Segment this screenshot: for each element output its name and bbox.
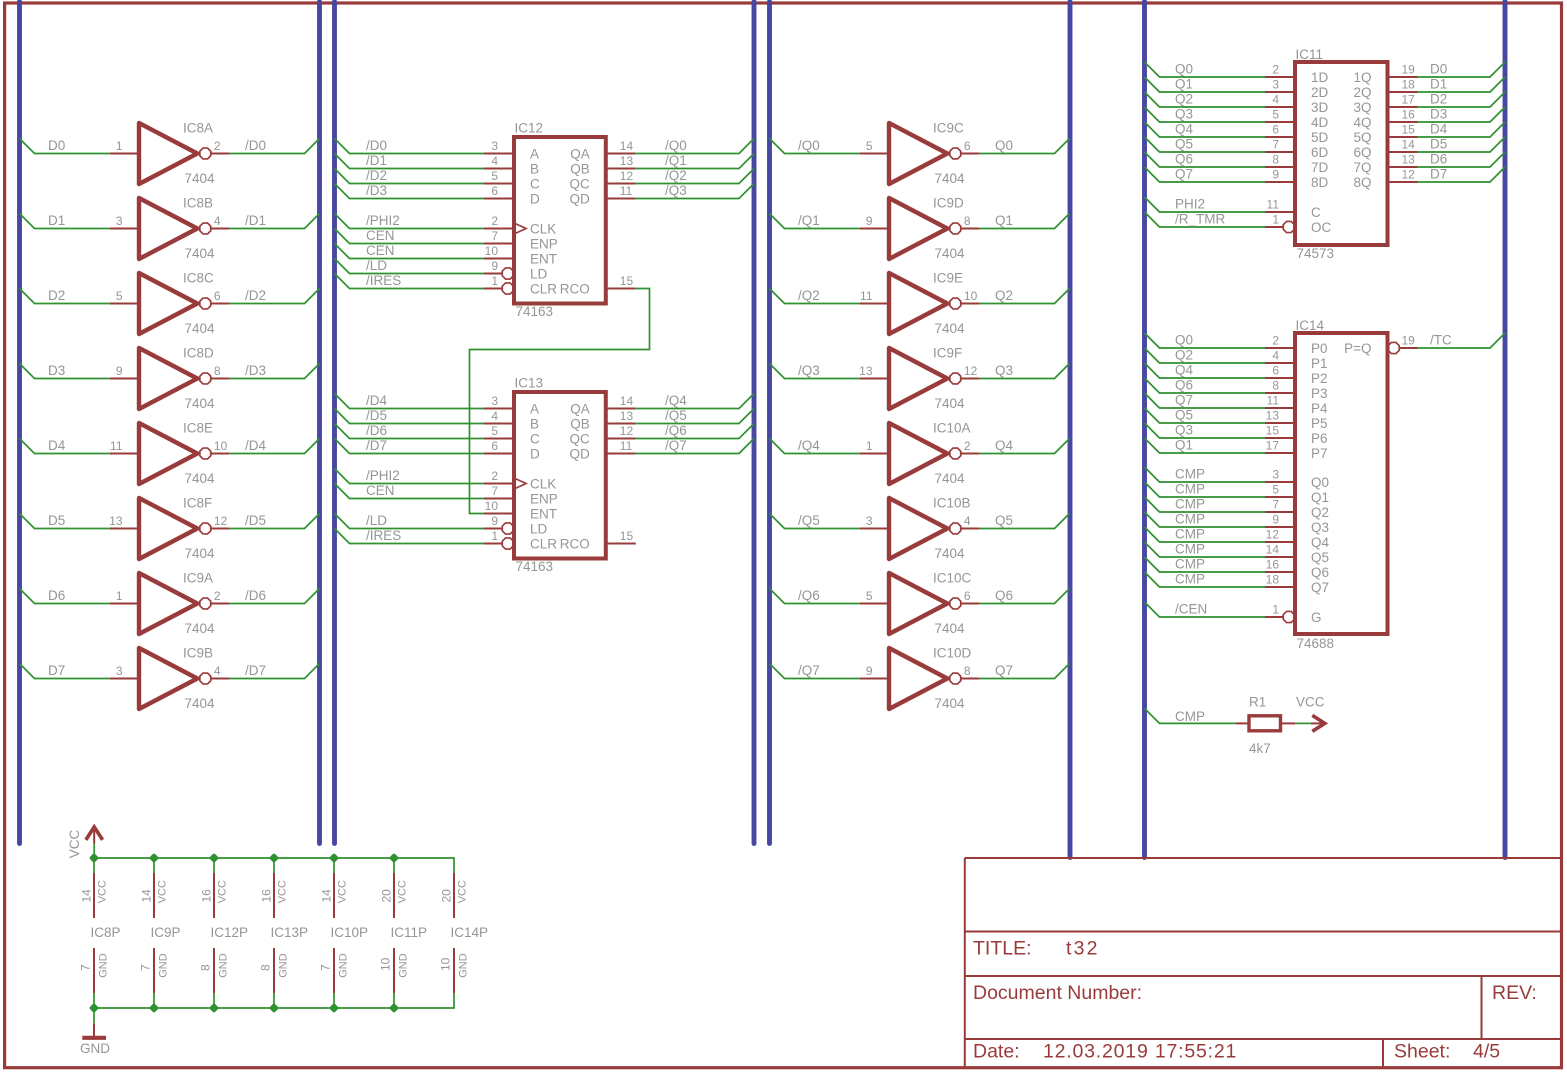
svg-text:Q3: Q3 — [1175, 423, 1193, 438]
junction — [329, 853, 339, 863]
svg-text:/D3: /D3 — [366, 183, 387, 198]
svg-text:13: 13 — [620, 409, 634, 423]
svg-text:5: 5 — [1272, 108, 1279, 122]
svg-text:3D: 3D — [1311, 100, 1329, 115]
pin 5 C — [484, 424, 540, 447]
svg-text:CMP: CMP — [1175, 512, 1205, 527]
svg-text:VCC: VCC — [277, 880, 289, 903]
svg-text:4: 4 — [1272, 349, 1279, 363]
bus /D left-a — [317, 2, 322, 844]
svg-text:/Q7: /Q7 — [798, 663, 820, 678]
IC IC12 74163 — [514, 137, 606, 304]
svg-text:2: 2 — [1272, 63, 1279, 77]
bus Q right-b — [1142, 2, 1147, 858]
pin 2 CLK — [484, 214, 556, 237]
svg-text:C: C — [530, 432, 540, 447]
wire GND stem — [93, 1008, 95, 1023]
bus DBUS left — [17, 2, 22, 844]
pin 19 1Q — [1353, 63, 1417, 86]
svg-text:9: 9 — [866, 664, 873, 678]
svg-text:VCC: VCC — [97, 880, 109, 903]
svg-text:5D: 5D — [1311, 130, 1329, 145]
inverter IC10D 7404 — [860, 646, 979, 712]
svg-text:13: 13 — [1402, 153, 1416, 167]
svg-text:QC: QC — [570, 432, 591, 447]
wire /LD — [335, 514, 485, 529]
svg-text:D1: D1 — [1430, 77, 1447, 92]
wire VCC rail — [94, 858, 454, 873]
svg-text:11: 11 — [620, 439, 633, 453]
pin 3 Q0 — [1265, 468, 1329, 491]
wire Q4 — [1145, 122, 1266, 137]
svg-text:GND: GND — [80, 1041, 110, 1056]
svg-text:12: 12 — [1402, 168, 1416, 182]
svg-text:ENP: ENP — [530, 237, 558, 252]
svg-text:IC10C: IC10C — [933, 571, 972, 586]
svg-text:7404: 7404 — [935, 171, 966, 186]
wire Q0 — [1145, 62, 1266, 77]
pin 4 3D — [1265, 93, 1329, 116]
svg-text:Q4: Q4 — [1175, 122, 1194, 137]
pin 11 P4 — [1265, 394, 1328, 417]
svg-text:9: 9 — [491, 259, 498, 273]
svg-text:8Q: 8Q — [1353, 175, 1371, 190]
pin 7 ENP — [484, 229, 558, 252]
svg-text:2D: 2D — [1311, 85, 1329, 100]
bus /Q mid-a — [752, 2, 757, 844]
pin 9 LD — [484, 514, 548, 537]
wire Q4 — [1145, 363, 1266, 378]
svg-text:B: B — [530, 162, 539, 177]
wire CMP — [1145, 467, 1266, 482]
svg-text:ENP: ENP — [530, 492, 558, 507]
svg-text:/Q6: /Q6 — [665, 423, 687, 438]
svg-text:Q6: Q6 — [1311, 565, 1329, 580]
inverter IC8B 7404 — [110, 196, 229, 262]
inverter IC10B 7404 — [860, 496, 979, 562]
wire Q2 — [1145, 348, 1266, 363]
svg-text:1Q: 1Q — [1353, 70, 1371, 85]
svg-text:8: 8 — [214, 364, 221, 378]
svg-text:3: 3 — [116, 664, 123, 678]
svg-text:P7: P7 — [1311, 446, 1328, 461]
wire /D1 — [335, 154, 485, 169]
pin 6 D — [484, 184, 540, 207]
pin 11 QD — [570, 184, 636, 207]
svg-text:1: 1 — [491, 274, 498, 288]
svg-text:IC10B: IC10B — [933, 496, 971, 511]
svg-text:8: 8 — [964, 664, 971, 678]
svg-text:/D6: /D6 — [245, 588, 266, 603]
junction — [149, 1003, 159, 1013]
svg-text:ENT: ENT — [530, 252, 557, 267]
bus D right — [1503, 2, 1508, 858]
wire Q7 — [1145, 167, 1266, 182]
svg-text:16: 16 — [199, 889, 213, 903]
svg-text:Q1: Q1 — [1175, 438, 1193, 453]
svg-text:/D2: /D2 — [366, 168, 387, 183]
pin 4 P1 — [1265, 349, 1328, 372]
svg-text:D2: D2 — [1430, 92, 1447, 107]
svg-text:Q0: Q0 — [1175, 333, 1193, 348]
wire RCO loop IC12->IC13 ENT — [470, 289, 650, 514]
junction — [389, 1003, 399, 1013]
wire /D3 (IC8D output) — [229, 364, 320, 379]
pin 4 B — [484, 154, 539, 177]
wire /Q7 — [636, 439, 754, 454]
svg-text:14: 14 — [1266, 543, 1280, 557]
bus Q right-a — [1068, 2, 1073, 858]
svg-text:/TC: /TC — [1430, 333, 1452, 348]
pin 5 Q1 — [1265, 483, 1329, 506]
wire Q3 — [1145, 423, 1266, 438]
svg-text:16: 16 — [259, 889, 273, 903]
wire /Q3 (net to IC9F input) — [770, 364, 860, 379]
svg-text:P0: P0 — [1311, 341, 1328, 356]
pin 15 RCO — [560, 529, 636, 552]
svg-text:12: 12 — [964, 364, 978, 378]
svg-text:VCC: VCC — [67, 830, 82, 859]
svg-text:15: 15 — [620, 529, 634, 543]
pin 2 1D — [1265, 63, 1329, 86]
svg-text:5: 5 — [491, 424, 498, 438]
svg-text:P1: P1 — [1311, 356, 1328, 371]
svg-text:16: 16 — [1266, 558, 1280, 572]
svg-text:/IRES: /IRES — [366, 528, 401, 543]
svg-text:/Q1: /Q1 — [798, 213, 820, 228]
svg-text:P6: P6 — [1311, 431, 1328, 446]
wire Q5 (IC10B output) — [979, 514, 1070, 529]
pin 8 7D — [1265, 153, 1329, 176]
svg-text:7: 7 — [319, 964, 333, 971]
svg-text:/D5: /D5 — [245, 513, 266, 528]
svg-text:CMP: CMP — [1175, 709, 1205, 724]
svg-text:3: 3 — [116, 214, 123, 228]
svg-text:CEN: CEN — [366, 228, 395, 243]
wire /D1 (IC8B output) — [229, 214, 320, 229]
svg-text:Q3: Q3 — [1175, 107, 1193, 122]
svg-text:74163: 74163 — [516, 559, 554, 574]
svg-text:GND: GND — [217, 953, 229, 978]
svg-text:20: 20 — [379, 889, 393, 903]
svg-text:P=Q: P=Q — [1344, 341, 1371, 356]
svg-text:6: 6 — [491, 439, 498, 453]
svg-text:6: 6 — [1272, 123, 1279, 137]
svg-text:7404: 7404 — [935, 546, 966, 561]
svg-text:CLK: CLK — [530, 477, 556, 492]
svg-text:/D0: /D0 — [366, 138, 387, 153]
svg-text:5: 5 — [866, 589, 873, 603]
svg-text:A: A — [530, 147, 539, 162]
svg-text:7404: 7404 — [185, 621, 216, 636]
pin 7 6D — [1265, 138, 1329, 161]
svg-text:D5: D5 — [1430, 137, 1447, 152]
pin 3 A — [484, 139, 539, 162]
pin 13 7Q — [1353, 153, 1417, 176]
wire D4 — [1418, 122, 1506, 137]
svg-text:/R_TMR: /R_TMR — [1175, 212, 1226, 227]
svg-text:/Q0: /Q0 — [665, 138, 687, 153]
svg-text:17: 17 — [1402, 93, 1416, 107]
svg-text:IC10A: IC10A — [933, 421, 971, 436]
svg-text:/Q3: /Q3 — [665, 183, 687, 198]
svg-text:11: 11 — [1267, 198, 1280, 212]
svg-text:Q4: Q4 — [995, 438, 1014, 453]
wire /D2 (IC8C output) — [229, 289, 320, 304]
svg-text:2: 2 — [214, 139, 221, 153]
inverter IC9F 7404 — [859, 346, 979, 412]
wire Q4 (IC10A output) — [979, 439, 1070, 454]
wire D1 (net to IC8B input) — [20, 214, 110, 229]
pin 1 G — [1265, 603, 1322, 626]
svg-text:RCO: RCO — [560, 282, 590, 297]
svg-text:D2: D2 — [48, 288, 65, 303]
svg-text:15: 15 — [1266, 424, 1280, 438]
inverter IC9D 7404 — [860, 196, 979, 262]
svg-text:IC9D: IC9D — [933, 196, 964, 211]
svg-text:14: 14 — [1402, 138, 1416, 152]
svg-text:/D4: /D4 — [366, 393, 388, 408]
svg-text:1: 1 — [1272, 603, 1279, 617]
svg-text:2: 2 — [491, 214, 498, 228]
wire D2 (net to IC8C input) — [20, 289, 110, 304]
svg-text:7404: 7404 — [185, 171, 216, 186]
svg-text:VCC: VCC — [1296, 695, 1325, 710]
svg-text:12: 12 — [620, 424, 634, 438]
svg-text:CMP: CMP — [1175, 467, 1205, 482]
pin 2 CLK — [484, 469, 556, 492]
svg-text:CMP: CMP — [1175, 482, 1205, 497]
wire /TC — [1418, 333, 1506, 348]
wire D0 (net to IC8A input) — [20, 139, 110, 154]
wire /Q6 (net to IC10C input) — [770, 589, 860, 604]
svg-text:1: 1 — [866, 439, 873, 453]
pin 6 P2 — [1265, 364, 1328, 387]
svg-text:20: 20 — [439, 889, 453, 903]
pin 19 P=Q — [1344, 334, 1417, 357]
svg-text:8: 8 — [964, 214, 971, 228]
svg-text:/D4: /D4 — [245, 438, 267, 453]
power part IC12P — [199, 858, 249, 1008]
svg-text:/PHI2: /PHI2 — [366, 468, 400, 483]
svg-text:GND: GND — [277, 953, 289, 978]
svg-text:Sheet:: Sheet: — [1394, 1041, 1450, 1063]
wire /PHI2 — [335, 214, 485, 229]
svg-text:7: 7 — [491, 484, 498, 498]
svg-text:QB: QB — [570, 417, 590, 432]
wire /Q7 (net to IC10D input) — [770, 664, 860, 679]
svg-text:16: 16 — [1402, 108, 1416, 122]
svg-text:13: 13 — [859, 364, 873, 378]
svg-text:IC14P: IC14P — [451, 925, 489, 940]
svg-text:QD: QD — [570, 447, 591, 462]
wire /LD — [335, 259, 485, 274]
wire /Q0 (net to IC9C input) — [770, 139, 860, 154]
svg-text:IC9E: IC9E — [933, 271, 963, 286]
pin 13 QB — [570, 409, 636, 432]
pin 14 QA — [570, 139, 636, 162]
svg-text:8: 8 — [1272, 153, 1279, 167]
svg-text:2: 2 — [964, 439, 971, 453]
svg-text:IC10D: IC10D — [933, 646, 972, 661]
IC IC13 74163 — [514, 392, 606, 559]
svg-text:11: 11 — [620, 184, 633, 198]
wire CMP — [1145, 497, 1266, 512]
svg-text:7: 7 — [1272, 498, 1279, 512]
wire D2 — [1418, 92, 1506, 107]
wire /D7 (IC9B output) — [229, 664, 320, 679]
wire Q5 — [1145, 408, 1266, 423]
svg-text:/Q2: /Q2 — [665, 168, 687, 183]
wire /Q1 — [636, 154, 754, 169]
junction — [149, 853, 159, 863]
svg-text:8: 8 — [199, 964, 213, 971]
svg-text:RCO: RCO — [560, 537, 590, 552]
wire /D3 — [335, 184, 485, 199]
svg-text:/D5: /D5 — [366, 408, 387, 423]
svg-text:Q7: Q7 — [1175, 393, 1193, 408]
wire /IRES — [335, 529, 485, 544]
svg-text:14: 14 — [319, 889, 333, 903]
wire Q7 — [1145, 393, 1266, 408]
svg-text:D: D — [530, 192, 540, 207]
wire Q6 (IC10C output) — [979, 589, 1070, 604]
wire D7 (net to IC9B input) — [20, 664, 110, 679]
bus /Q mid-b — [767, 2, 772, 844]
wire /PHI2 — [335, 469, 485, 484]
svg-text:3: 3 — [491, 139, 498, 153]
wire D1 — [1418, 77, 1506, 92]
GND symbol — [80, 1023, 110, 1056]
svg-text:Q3: Q3 — [995, 363, 1013, 378]
wire Q2 — [1145, 92, 1266, 107]
inverter IC9E 7404 — [860, 271, 979, 337]
wire GND rail — [94, 993, 454, 1008]
wire D0 — [1418, 62, 1506, 77]
svg-text:LD: LD — [530, 267, 548, 282]
pin 6 5D — [1265, 123, 1329, 146]
svg-text:QD: QD — [570, 192, 591, 207]
bus /D left-b — [332, 2, 337, 844]
svg-text:/CEN: /CEN — [1175, 602, 1207, 617]
svg-text:Q2: Q2 — [1175, 348, 1193, 363]
svg-text:8D: 8D — [1311, 175, 1329, 190]
IC IC14 74688 — [1295, 333, 1388, 634]
wire /Q4 (net to IC10A input) — [770, 439, 860, 454]
wire D6 (net to IC9A input) — [20, 589, 110, 604]
svg-text:7Q: 7Q — [1353, 160, 1371, 175]
svg-text:CMP: CMP — [1175, 542, 1205, 557]
wire VCC stem — [93, 844, 95, 859]
pin 18 2Q — [1353, 78, 1417, 101]
pin 16 Q6 — [1265, 558, 1329, 581]
svg-text:IC10P: IC10P — [331, 925, 369, 940]
pin 3 2D — [1265, 78, 1329, 101]
pin 12 QC — [570, 169, 636, 192]
svg-text:74573: 74573 — [1297, 246, 1335, 261]
svg-text:TITLE:: TITLE: — [973, 938, 1032, 960]
svg-text:7: 7 — [79, 964, 93, 971]
wire VCC (R1 to supply) — [1295, 722, 1311, 724]
svg-text:P2: P2 — [1311, 371, 1328, 386]
svg-text:/IRES: /IRES — [366, 273, 401, 288]
svg-text:14: 14 — [620, 394, 634, 408]
svg-text:14: 14 — [620, 139, 634, 153]
svg-text:10: 10 — [379, 957, 393, 971]
svg-text:2: 2 — [491, 469, 498, 483]
svg-text:P3: P3 — [1311, 386, 1328, 401]
junction — [89, 853, 99, 863]
wire /Q4 — [636, 394, 754, 409]
inverter IC10A 7404 — [860, 421, 979, 487]
wire D3 (net to IC8D input) — [20, 364, 110, 379]
wire /D4 — [335, 394, 485, 409]
svg-text:GND: GND — [457, 953, 469, 978]
svg-text:7404: 7404 — [935, 321, 966, 336]
svg-text:CLR: CLR — [530, 537, 557, 552]
junction — [269, 853, 279, 863]
pin 9 LD — [484, 259, 548, 282]
power part IC9P — [139, 858, 181, 1008]
svg-text:12: 12 — [214, 514, 228, 528]
svg-text:QA: QA — [570, 147, 590, 162]
svg-text:8: 8 — [1272, 379, 1279, 393]
inverter IC8D 7404 — [110, 346, 229, 412]
svg-text:QC: QC — [570, 177, 591, 192]
svg-text:7404: 7404 — [935, 696, 966, 711]
pin 1 CLR — [484, 529, 557, 552]
power part IC10P — [319, 858, 369, 1008]
inverter IC8F 7404 — [109, 496, 229, 562]
svg-text:9: 9 — [1272, 168, 1279, 182]
svg-text:Q1: Q1 — [1175, 77, 1193, 92]
svg-text:/Q1: /Q1 — [665, 153, 687, 168]
svg-text:Q2: Q2 — [1311, 505, 1329, 520]
wire D3 — [1418, 107, 1506, 122]
svg-text:4D: 4D — [1311, 115, 1329, 130]
svg-text:3: 3 — [1272, 468, 1279, 482]
svg-text:Q5: Q5 — [1311, 550, 1329, 565]
pin 1 CLR — [484, 274, 557, 297]
pin 11 QD — [570, 439, 636, 462]
svg-text:/Q5: /Q5 — [798, 513, 820, 528]
svg-text:D4: D4 — [48, 438, 66, 453]
pin 16 4Q — [1353, 108, 1417, 131]
svg-text:6: 6 — [491, 184, 498, 198]
svg-text:D7: D7 — [1430, 167, 1447, 182]
svg-text:REV:: REV: — [1492, 982, 1537, 1004]
svg-text:CLK: CLK — [530, 222, 556, 237]
svg-text:/Q2: /Q2 — [798, 288, 820, 303]
svg-text:1: 1 — [116, 139, 123, 153]
svg-text:3: 3 — [491, 394, 498, 408]
wire /D0 — [335, 139, 485, 154]
svg-text:D: D — [530, 447, 540, 462]
svg-text:10: 10 — [964, 289, 978, 303]
pin 13 QB — [570, 154, 636, 177]
svg-text:10: 10 — [439, 957, 453, 971]
wire CEN — [335, 244, 485, 259]
svg-text:17: 17 — [1266, 439, 1280, 453]
wire /D6 (IC9A output) — [229, 589, 320, 604]
svg-text:1: 1 — [491, 529, 498, 543]
power part IC8P — [79, 858, 121, 1008]
svg-text:/Q6: /Q6 — [798, 588, 820, 603]
pin 15 P6 — [1265, 424, 1328, 447]
wire Q6 — [1145, 378, 1266, 393]
wire CMP (to R1) — [1145, 708, 1236, 723]
pin 2 P0 — [1265, 334, 1328, 357]
